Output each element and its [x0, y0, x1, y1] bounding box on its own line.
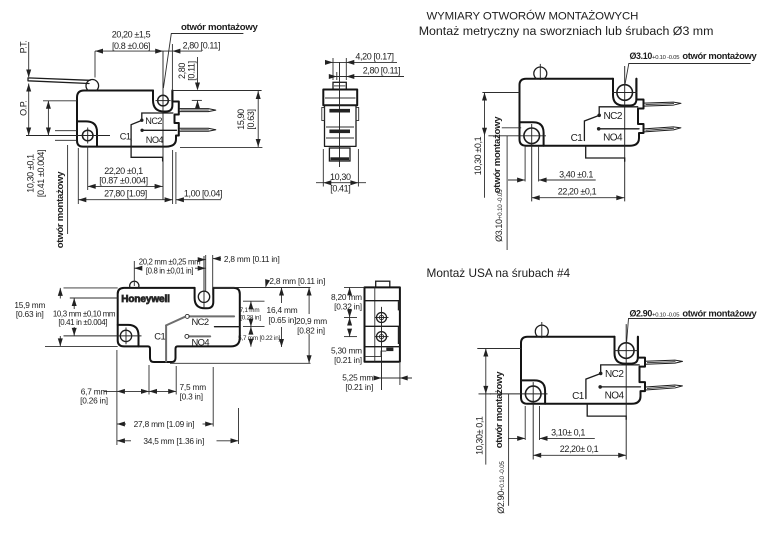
O.P. level line	[43, 100, 77, 102]
svg-text:20,20 ±1,5: 20,20 ±1,5	[112, 29, 151, 39]
svg-text:otwór montażowy: otwór montażowy	[682, 50, 757, 61]
switch symbol view 6 (reused)	[490, 322, 683, 460]
bottom cover	[329, 148, 350, 161]
leader line	[625, 64, 751, 85]
svg-text:+0.10 -0.05: +0.10 -0.05	[652, 55, 680, 61]
extension lines plunger 4,20	[332, 58, 334, 80]
internal circuit: NC2 wire	[142, 113, 173, 120]
switch symbol view 3	[488, 64, 681, 202]
extension hole center SW4	[205, 255, 207, 291]
dim 16,4	[281, 288, 283, 304]
tick 7,1 upper	[243, 300, 265, 302]
centerline top-right hole SW4	[203, 256, 205, 308]
mounting hole circle bottom-left SW1	[82, 130, 93, 141]
terminal pin 2 (NC)	[179, 109, 216, 112]
svg-text:[0.63 in]: [0.63 in]	[16, 309, 44, 319]
svg-text:22,20 ±0,1: 22,20 ±0,1	[558, 186, 597, 196]
dim 3,10 view6	[508, 437, 525, 439]
extension lines bottom dims	[116, 350, 118, 445]
extension line 1,00	[175, 152, 177, 204]
svg-text:27,80 [1.09]: 27,80 [1.09]	[104, 189, 147, 199]
profile plunger view5	[376, 281, 390, 287]
svg-text:[0.8 in ±0,01 in]: [0.8 in ±0,01 in]	[146, 266, 193, 275]
boss top tick line	[502, 127, 521, 129]
svg-text:Ø2.90+0.10 -0.05: Ø2.90+0.10 -0.05	[496, 461, 506, 514]
mounting hole circle top-right SW1	[158, 95, 169, 106]
extension 2,8 ref	[212, 255, 214, 295]
notch dark	[386, 348, 393, 352]
profile body view5	[365, 287, 400, 361]
node NO4 dot	[140, 129, 143, 132]
hole circle top-right SW4	[198, 291, 209, 302]
extension lines 3,40	[524, 146, 526, 182]
svg-text:[0.21 in]: [0.21 in]	[345, 382, 373, 392]
svg-text:otwór montażowy: otwór montażowy	[55, 171, 66, 248]
extension lines 10,30	[322, 149, 324, 187]
O.P. level line view4	[70, 297, 118, 299]
screw hole lower	[377, 332, 387, 342]
svg-text:Montaż metryczny na sworzniach: Montaż metryczny na sworzniach lub śruba…	[419, 24, 714, 38]
svg-text:5,7 mm [0.22 in]: 5,7 mm [0.22 in]	[238, 335, 280, 342]
extension line 2,80	[336, 72, 338, 80]
crosshair top-right hole	[156, 100, 171, 102]
svg-text:otwór montażowy: otwór montażowy	[492, 116, 503, 193]
extension body right down	[399, 363, 401, 385]
svg-text:[0.32 in]: [0.32 in]	[334, 301, 362, 311]
dim 15,90 line	[257, 91, 259, 147]
svg-text:[0.63]: [0.63]	[246, 109, 256, 129]
center axis	[339, 62, 341, 167]
svg-text:+0.10 -0.05: +0.10 -0.05	[652, 313, 680, 319]
lever arm	[28, 78, 90, 84]
svg-text:10,30: 10,30	[330, 172, 351, 182]
svg-text:[0.26 in]: [0.26 in]	[80, 396, 108, 406]
svg-text:Ø3.10+0.10 -0.05: Ø3.10+0.10 -0.05	[494, 189, 504, 242]
svg-text:8,20 mm: 8,20 mm	[331, 292, 362, 302]
svg-text:2,80 [0.11]: 2,80 [0.11]	[183, 41, 220, 51]
leader line view6	[627, 319, 753, 343]
extension body bottom right long	[180, 147, 262, 149]
extension top edge left	[64, 287, 118, 289]
svg-text:Ø2.90: Ø2.90	[630, 309, 653, 319]
svg-text:34,5 mm [1.36 in]: 34,5 mm [1.36 in]	[143, 436, 204, 446]
dim 10,30 line view3	[484, 93, 486, 198]
hole level ticks	[344, 317, 357, 319]
terminal bar 1 edge-on	[329, 109, 350, 113]
pivot NO4	[185, 334, 189, 338]
svg-text:NC2: NC2	[145, 116, 162, 126]
left reference line	[482, 92, 519, 94]
dim 4,20 line	[325, 61, 397, 63]
svg-text:[0.11]: [0.11]	[186, 61, 196, 80]
extension lines 3,10 view6	[524, 406, 526, 440]
dim 22,20 view3	[532, 197, 625, 199]
leader line for otwor montazowy	[163, 34, 243, 89]
dim 20,2 arrows	[199, 259, 206, 261]
svg-text:C1: C1	[154, 331, 165, 342]
dim 2,80 line	[330, 76, 404, 78]
holes centerline	[381, 307, 383, 390]
switch body SW4 outline	[118, 288, 240, 362]
svg-text:[0.82 in]: [0.82 in]	[297, 325, 325, 335]
left reference line view6	[477, 348, 521, 350]
svg-text:[0.21 in]: [0.21 in]	[334, 355, 362, 365]
svg-text:O.P.: O.P.	[18, 101, 28, 116]
svg-text:Ø3.10: Ø3.10	[630, 51, 653, 61]
svg-text:Montaż USA na śrubach #4: Montaż USA na śrubach #4	[427, 266, 571, 280]
svg-text:[0.28 in]: [0.28 in]	[240, 314, 261, 321]
circuit NO4 wire (gray)	[189, 335, 210, 337]
extension line lever pivot	[94, 51, 96, 77]
plunger bump SW4	[130, 281, 139, 288]
dim 22,20 view6	[533, 454, 626, 456]
svg-text:otwór montażowy: otwór montażowy	[181, 22, 258, 33]
svg-text:20,2 mm ±0,25 mm: 20,2 mm ±0,25 mm	[139, 257, 201, 266]
dim 27,8	[117, 423, 126, 425]
node NC2 dot	[140, 119, 143, 122]
dim 22,20 line	[88, 185, 163, 187]
inner edge line	[374, 287, 376, 361]
extension line right edge	[172, 150, 174, 204]
svg-text:[0.87 ±0.004]: [0.87 ±0.004]	[99, 176, 148, 186]
right edge shading	[398, 301, 400, 310]
svg-text:[0.41 in ±0.004]: [0.41 in ±0.004]	[58, 318, 107, 327]
svg-text:10,30 ±0,1: 10,30 ±0,1	[473, 136, 483, 175]
profile plunger	[333, 82, 346, 89]
crosshair bottom-left SW4	[64, 335, 142, 337]
dim 1,00	[176, 199, 221, 201]
switch body SW1 outline	[77, 91, 179, 147]
mounting hole boss bottom-left SW1	[77, 121, 97, 146]
hole cross ticks	[375, 317, 389, 319]
extension terminal bottom	[170, 362, 311, 364]
dim 20,9	[308, 288, 310, 315]
plunger bump SW1	[86, 80, 99, 91]
dim 3,40	[508, 179, 525, 181]
svg-text:10,30± 0,1: 10,30± 0,1	[475, 416, 485, 455]
dim 10,30 line view6	[485, 349, 487, 465]
tick terminal top level	[192, 99, 202, 101]
leader line rotated label	[506, 136, 508, 250]
extension top edge right long	[213, 287, 310, 289]
svg-text:3,10± 0,1: 3,10± 0,1	[551, 428, 585, 438]
svg-text:10,30 ±0,1: 10,30 ±0,1	[26, 154, 36, 193]
svg-text:7,1 mm: 7,1 mm	[240, 307, 260, 314]
dim 8,20 arrows	[349, 287, 351, 292]
dim 6,7 / 7,5 line	[104, 390, 176, 392]
svg-text:NO4: NO4	[192, 336, 210, 347]
terminal pin 4 (NO)	[179, 128, 216, 131]
svg-text:otwór montażowy: otwór montażowy	[682, 308, 757, 319]
extension plunger center SW4	[133, 261, 135, 286]
svg-text:5,30 mm: 5,30 mm	[331, 346, 362, 356]
svg-text:16,4 mm: 16,4 mm	[267, 305, 298, 315]
hole boss bottom-left SW4	[118, 325, 139, 347]
terminal bar 3 edge-on	[330, 157, 349, 160]
dim 10,3 split arrows	[73, 298, 75, 309]
svg-text:P.T.: P.T.	[18, 41, 28, 54]
common blade C1	[131, 120, 142, 140]
svg-text:C1: C1	[120, 132, 131, 142]
hole boss top-right SW4	[195, 288, 214, 308]
svg-text:2,8 mm [0.11 in]: 2,8 mm [0.11 in]	[224, 254, 280, 264]
extension bottom edge left	[45, 345, 118, 347]
svg-text:WYMIARY OTWORÓW MONTAŻOWYCH: WYMIARY OTWORÓW MONTAŻOWYCH	[427, 10, 639, 23]
crosshair bottom-left hole	[26, 135, 110, 137]
svg-text:22,20 ±0,1: 22,20 ±0,1	[104, 166, 143, 176]
profile upper housing	[323, 90, 357, 106]
extension line body left bottom	[77, 148, 79, 204]
svg-text:[0.41]: [0.41]	[330, 184, 350, 194]
side tab right	[356, 108, 359, 121]
screw hole upper	[377, 313, 387, 323]
svg-text:3,40 ±0.1: 3,40 ±0.1	[559, 169, 593, 179]
dim line O.P.	[28, 84, 30, 136]
dim 10,30 line	[47, 101, 49, 136]
svg-text:2,8 mm [0.11 in]: 2,8 mm [0.11 in]	[269, 276, 325, 286]
profile mid housing	[325, 105, 357, 146]
hole circle bottom-left SW4	[120, 330, 131, 341]
dim line 2,80 vertical	[197, 57, 199, 85]
leader line for left otwor montazowy	[67, 145, 69, 234]
common blade C1 (gray)	[166, 317, 185, 326]
extension body top right long	[172, 90, 261, 92]
hole centerline left ext view6	[479, 393, 492, 395]
dim 5,7	[250, 327, 252, 331]
leader line rotated label view6	[508, 394, 510, 506]
extension line hole bottom-left	[87, 146, 89, 190]
housing split line	[326, 126, 354, 128]
tick top	[344, 286, 365, 288]
dim 15,9 split arrows	[59, 288, 61, 299]
svg-text:NC2: NC2	[192, 316, 209, 327]
dim 7,1	[250, 301, 252, 307]
terminal bar 2 edge-on	[329, 130, 350, 134]
svg-text:otwór montażowy: otwór montażowy	[494, 371, 505, 448]
svg-text:[0.41 ±0.004]: [0.41 ±0.004]	[36, 150, 46, 197]
svg-text:1,00 [0.04]: 1,00 [0.04]	[184, 189, 222, 199]
svg-text:27,8 mm [1.09 in]: 27,8 mm [1.09 in]	[134, 419, 195, 429]
common lead down (gray)	[165, 325, 167, 361]
dim line P.T.	[28, 42, 30, 77]
dim 10,30 line	[316, 182, 366, 184]
svg-text:5,25 mm: 5,25 mm	[342, 372, 373, 382]
dim 27,80 line	[78, 199, 172, 201]
internal circuit: NO4 wire	[142, 129, 176, 131]
housing lines	[365, 300, 400, 302]
common terminal lead bottom	[131, 141, 163, 161]
mounting hole boss top-right SW1	[153, 91, 172, 112]
svg-text:15,90: 15,90	[236, 109, 246, 130]
svg-text:[0.8 ±0.06]: [0.8 ±0.06]	[112, 41, 150, 51]
internal step line right	[215, 326, 240, 328]
dim 5,30 arrows	[349, 318, 351, 323]
svg-text:NO4: NO4	[146, 135, 164, 145]
side tab left	[322, 108, 325, 121]
bottom step lines	[365, 351, 387, 356]
svg-text:[0.65 in]: [0.65 in]	[268, 315, 296, 325]
tick 7,1 lower	[243, 326, 265, 328]
svg-text:[0.3 in]: [0.3 in]	[180, 391, 203, 401]
svg-text:4,20 [0.17]: 4,20 [0.17]	[355, 51, 393, 61]
extension line body right top	[171, 44, 173, 91]
dim 34,5	[117, 440, 131, 442]
svg-text:2,80 [0.11]: 2,80 [0.11]	[363, 65, 400, 75]
dim 5,25 line	[374, 377, 412, 379]
svg-text:22,20± 0,1: 22,20± 0,1	[560, 444, 599, 454]
svg-text:Honeywell: Honeywell	[121, 294, 170, 305]
circuit NC2 wire (gray)	[190, 315, 235, 317]
pivot NC2	[185, 314, 189, 318]
dim line 20,20 / 2,80 top	[95, 50, 202, 52]
